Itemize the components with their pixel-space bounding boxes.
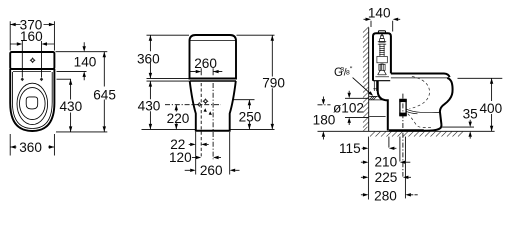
G3/8 leader arrowhead [368,91,373,96]
tank front outline [190,35,237,79]
svg-text:140: 140 [368,6,391,21]
dim 360 bottom [10,134,54,156]
pedestal bottom edge [195,130,231,132]
svg-text:260: 260 [200,163,223,178]
extension line seat back right [57,70,87,72]
svg-text:280: 280 [374,189,397,204]
svg-text:160: 160 [20,29,43,44]
labels view 1 [19,18,116,156]
cistern side outline [373,33,391,80]
svg-text:220: 220 [167,111,190,126]
dim 360 line (middle) [149,35,152,78]
logo diamonds [197,98,209,107]
dim 250 extension top [234,99,255,101]
centerline dash-dot vertical [212,83,214,159]
svg-text:": " [350,65,353,74]
bowl outer profile [424,78,453,131]
svg-text:115: 115 [339,141,361,156]
seat and lid top line [391,74,450,78]
wall hatching [363,27,369,132]
seat back edge line [13,70,51,72]
dim 160 projection lines [22,41,41,77]
extension bowl top left [147,80,190,82]
hinge bolt marker left [21,77,24,81]
bowl inner offset line [12,72,52,129]
extension tank bottom left [147,77,190,79]
bowl base bottom thick bar [389,129,424,132]
bowl right side taper [230,81,236,131]
tank lid line [190,40,237,42]
svg-text:120: 120 [169,150,192,165]
dim 35 arrows [469,120,472,139]
bowl opening ellipse [20,88,46,120]
floor line [318,130,495,132]
dim o102 arrows [348,91,351,125]
G3/8 leader line [353,78,372,95]
dim 140 arrows [364,18,401,21]
supply pipe under tank [373,81,377,91]
dim 430 line (middle) [149,81,152,129]
dim 220 line [175,105,178,130]
dim row 22 [189,143,209,146]
dim 400 line [490,78,493,131]
dim 790 line [271,35,274,129]
extension wall face below floor [367,137,369,200]
extension line 210 below floor [399,137,401,162]
extension tank top left [147,34,190,36]
extension line hinge right [57,78,72,80]
dim row 225 [361,176,411,179]
outlet pipe to wall [369,96,386,116]
dim o102 extensions [345,98,368,117]
seat ring ellipse [17,83,48,124]
dim 180 arrows [322,97,325,140]
trapway dashed curve lower [408,114,434,128]
svg-text:250: 250 [239,109,262,124]
floor line right of pedestal [231,128,275,130]
dim 160 arrows [10,42,54,45]
outlet gasket capsule [399,99,406,116]
svg-text:140: 140 [74,54,97,69]
dim 400 extension top [458,77,503,79]
dim 645 line [103,52,106,132]
extension tank top right [237,34,275,36]
drain mark arrows [204,108,212,115]
flush button diamond [30,57,36,63]
hinge bolt marker right [40,77,43,81]
dim 35 extension [442,126,474,128]
dim 430 line (left view) [69,79,72,132]
svg-text:400: 400 [479,101,502,116]
extension line bowl front right [56,131,107,133]
centerline dash-dot horizontal [165,104,221,106]
labels view 3 [313,6,503,204]
fill/flush mechanism [375,34,389,77]
label G3/8 [334,65,353,79]
svg-text:430: 430 [59,99,82,114]
dim 140 extensions [371,21,393,32]
svg-text:225: 225 [375,170,398,185]
svg-text:790: 790 [262,76,285,91]
dim row 120 [192,156,221,159]
dim 180 extension dashdot [318,104,331,106]
svg-text:260: 260 [194,56,217,71]
flush button side [378,31,385,33]
trapway dashed curve upper [410,76,430,109]
extension line 115 below floor [388,137,390,148]
labels view 2 [137,51,285,178]
bowl outer stadium outline [10,69,54,131]
dim row 210 [361,161,410,164]
svg-text:645: 645 [93,87,116,102]
sump outline [26,97,38,109]
cistern tank top-view rectangle [10,52,54,69]
dim 260 top ticks [201,68,213,75]
drain centerline dash-dot [402,94,404,177]
floor hatching under base [370,131,463,136]
dim 370 line [10,23,54,26]
dim row 280 [361,193,418,196]
dim row 115 [362,147,397,150]
dim 140 arrows [83,42,86,80]
extension line 280 below floor [404,137,406,199]
bowl left side taper [190,81,196,131]
bowl top line under tank [190,80,237,82]
svg-text:430: 430 [138,99,161,114]
svg-text:180: 180 [313,113,336,128]
extension pedestal left below [195,132,197,175]
svg-text:210: 210 [374,155,397,170]
bowl back outline [378,81,388,131]
svg-text:ø102: ø102 [333,100,364,115]
dim 250 line [248,100,251,130]
centerline dashed vertical [200,83,202,158]
svg-text:360: 360 [19,140,42,155]
floor line left of pedestal [142,128,196,130]
dim 260 top arrows [190,70,222,73]
dim 370 extension lines [10,21,54,50]
extension line tank top right [56,51,108,53]
tank bottom line [373,80,390,82]
svg-text:360: 360 [137,51,160,66]
svg-text:35: 35 [463,106,478,121]
wall face line [368,28,370,132]
extension pedestal right below [229,132,231,175]
dim row 260 bottom [185,169,240,172]
ceramic rim line [391,77,447,79]
bowl underside lines [405,109,440,114]
